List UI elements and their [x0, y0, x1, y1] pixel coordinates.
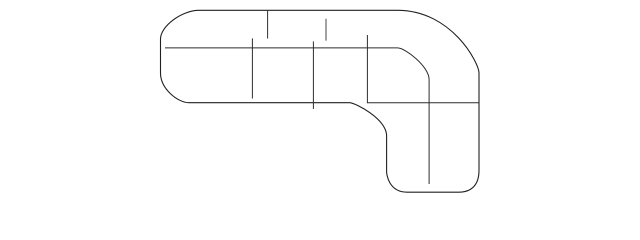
inner edge line with elbow bend	[165, 48, 429, 184]
inner corner seam line	[367, 35, 478, 103]
section divider line A	[251, 38, 253, 98]
tick mark 1	[267, 10, 269, 38]
section divider line B	[312, 41, 314, 109]
tick mark 2	[325, 19, 327, 41]
part outline	[161, 10, 480, 192]
